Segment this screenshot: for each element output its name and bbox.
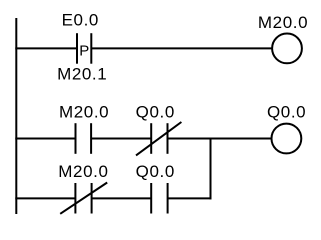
wire rung2 between contacts (91, 138, 151, 140)
contact Q0.0 NC left bar (150, 123, 152, 154)
wire rung1 contact to coil (91, 47, 272, 49)
contact E0.0 positive-edge (P) right bar (90, 33, 92, 64)
wire rung3 rail to contact M20.0 NC (15, 197, 75, 199)
wire rung1 rail to contact (15, 47, 77, 49)
svg-text:M20.0: M20.0 (59, 103, 109, 122)
svg-text:P: P (79, 42, 89, 59)
wire rung2 rail to contact M20.0 (15, 138, 75, 140)
svg-text:M20.0: M20.0 (258, 13, 308, 32)
contact M20.0 NO left bar (75, 123, 77, 154)
svg-text:M20.1: M20.1 (57, 65, 107, 84)
contact Q0.0 NO left bar (150, 183, 152, 214)
contact M20.0 NO right bar (90, 123, 92, 154)
svg-text:M20.0: M20.0 (58, 162, 108, 181)
wire rung3 between contacts (92, 197, 152, 199)
left power rail (15, 18, 17, 214)
wire rung2 contact to coil (168, 138, 272, 140)
contact M20.0 NC left bar (74, 183, 76, 214)
coil M20.0 (272, 34, 302, 64)
wire branch vertical join (210, 138, 212, 200)
contact Q0.0 NC right bar (167, 123, 169, 154)
contact M20.0 NC slash (60, 183, 107, 214)
coil Q0.0 (272, 124, 302, 154)
contact E0.0 positive-edge (P) left bar (76, 33, 78, 64)
contact Q0.0 NC slash (136, 122, 181, 155)
contact M20.0 NC right bar (91, 183, 93, 214)
svg-text:E0.0: E0.0 (62, 11, 99, 30)
contact Q0.0 NO right bar (167, 183, 169, 214)
wire rung3 contact to branch join (168, 197, 212, 199)
svg-text:Q0.0: Q0.0 (136, 103, 175, 122)
svg-text:Q0.0: Q0.0 (136, 162, 175, 181)
svg-text:Q0.0: Q0.0 (267, 102, 306, 121)
